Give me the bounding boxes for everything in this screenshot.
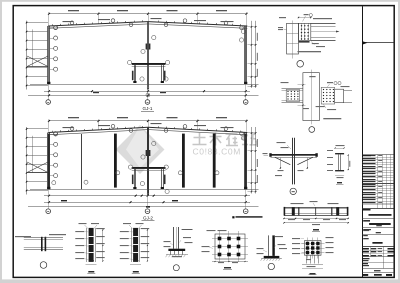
detail 8 caption (133, 271, 139, 273)
detail 1 beam (311, 23, 336, 25)
frame GJ-1 ground line (30, 84, 259, 86)
detail 12 left labels (292, 238, 300, 239)
title block company name (369, 223, 391, 225)
frame GJ-2 left girt ladder (26, 127, 28, 195)
title block stamp rows (362, 208, 394, 210)
detail 3 end ticks (269, 153, 271, 157)
detail 4 top dim (336, 145, 345, 146)
detail 1 section bubble (297, 61, 304, 68)
detail 2 note text (323, 118, 341, 119)
detail 2 column stub (303, 73, 320, 121)
frame GJ-1 roof label circles (54, 26, 58, 30)
title block check rows (363, 258, 370, 259)
detail 5 leader labels (291, 203, 304, 204)
frame GJ-2 right column (244, 133, 246, 190)
detail 10 caption (224, 267, 231, 269)
frame GJ-2 interior column B (114, 134, 117, 188)
detail 3 spreader bar (271, 154, 318, 156)
detail 8 column splice 2 (133, 228, 138, 262)
svg-text:GJ-2: GJ-2 (143, 216, 153, 221)
watermark logo diamond (116, 125, 165, 174)
detail 9 column base (173, 227, 175, 249)
svg-text:C0!88.C0M: C0!88.C0M (193, 147, 241, 157)
frame GJ-2 roof beam (48, 127, 148, 132)
detail 7 caption (88, 271, 94, 273)
frame GJ-1 axis line (28, 95, 259, 97)
frame GJ-2 ground line (30, 189, 259, 191)
detail 2 leader labels (281, 82, 289, 83)
title block drawing list table (362, 154, 394, 156)
general note (232, 216, 234, 218)
detail 5 end plates and stiffeners (284, 207, 286, 216)
detail 1 end plate bolts (299, 23, 311, 40)
detail 1 top dim (299, 17, 311, 19)
detail 12 lower part (306, 255, 308, 263)
frame GJ-2 lower dim line 2 (44, 202, 250, 204)
detail 4 I-section (335, 153, 344, 154)
frame GJ-2 interior column E (213, 134, 216, 188)
frame GJ-1 left column (47, 26, 49, 84)
detail 2 right beam stub (335, 89, 344, 103)
frame GJ-2 top dimension line (49, 120, 247, 122)
frame GJ-1 left girt ladder (26, 21, 28, 90)
detail 1 note text (298, 51, 322, 52)
detail 5 dim lines (284, 218, 348, 220)
frame GJ-2 right dimension chain (251, 127, 253, 194)
detail 12 bolt grid 2 (305, 241, 322, 256)
detail 3 hanger dims (280, 158, 282, 169)
detail 2 section bubble (309, 127, 315, 133)
frame GJ-2 lower dim line 1 (44, 195, 250, 197)
detail 2 right bolt grid (321, 87, 335, 104)
detail 2 left beam stub (282, 88, 303, 90)
title block signature table (362, 250, 394, 252)
detail 3 top labels (277, 142, 286, 143)
title block divider (362, 6, 364, 277)
title block scale row (374, 270, 381, 271)
frame GJ-2 interior column D (182, 134, 185, 188)
frame GJ-1 roof beam (48, 22, 148, 26)
detail 4 caption (337, 182, 342, 183)
frame GJ-2 wind column (81, 134, 83, 189)
frame GJ-1 axis bubbles (48, 84, 50, 100)
detail 4 bottom dim (335, 175, 344, 177)
frame GJ-1 top dimension line (49, 13, 247, 15)
detail 6 section bubble (40, 262, 47, 269)
frame GJ-2 centre column (147, 127, 149, 194)
frame GJ-1 centre column (147, 22, 149, 88)
frame GJ-1 right column (244, 26, 246, 84)
detail 6 beam splice (24, 237, 63, 239)
frame GJ-2 axis bubbles (48, 189, 50, 209)
detail 4 right dim (348, 155, 350, 171)
detail 10 end plate bolt grid (215, 234, 245, 259)
detail 5 beam flanges (284, 207, 348, 209)
detail 4 left labels (327, 150, 333, 151)
detail 1 column stub (287, 23, 299, 54)
frame GJ-1 crane bracket (132, 63, 166, 65)
detail 3 lower label (275, 175, 282, 176)
frame GJ-2 axis line (28, 206, 259, 208)
detail 2 left bolt grid (286, 90, 299, 102)
detail 7 column splice (89, 228, 94, 262)
watermark text tumu zaixian (drawn strokes) (193, 133, 258, 146)
title block bottom band (362, 274, 368, 276)
detail 9 section bubble (173, 265, 179, 271)
svg-text:GJ-1: GJ-1 (143, 106, 153, 111)
detail 12 caption (310, 273, 316, 275)
detail 11 column base 2 (268, 235, 270, 256)
frame GJ-2 crane bracket (132, 167, 166, 169)
detail 3 column (292, 138, 294, 185)
detail 11 section bubble (268, 263, 274, 269)
detail 2 dim ticks (302, 84, 303, 85)
detail 1 leader labels (279, 17, 286, 18)
frame GJ-2 left column (47, 133, 49, 190)
detail 5 caption (313, 229, 319, 231)
frame GJ-1 lower dim line (44, 91, 250, 93)
detail 3 section bubble (290, 188, 296, 194)
frame GJ-2 roof label circles (54, 132, 58, 136)
frame GJ-1 right dimension chain (251, 21, 253, 88)
detail 12 right labels (326, 237, 334, 238)
detail 3 haunches (275, 157, 291, 165)
title block arrow mark (362, 42, 394, 44)
